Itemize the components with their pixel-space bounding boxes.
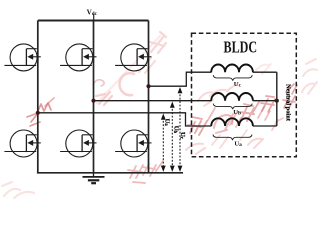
wire: phase leg A vertical [37,21,39,173]
wire: negative DC bus rail [37,172,183,174]
svg-text:Ua: Ua [163,119,170,127]
svg-text:Vdc: Vdc [87,9,98,18]
ground [83,173,105,183]
svg-text:Ua: Ua [234,140,242,148]
wire: phase leg C vertical [148,21,150,173]
node: phase B junction [91,99,95,103]
inductor winding A (bottom) [211,118,253,126]
svg-text:BLDC: BLDC [224,37,258,56]
wire coil A to neutral [253,125,277,127]
wire: phase B output to motor [94,100,212,102]
transistor VT4 (lower leg B) [60,130,96,157]
svg-text:Ub: Ub [233,109,241,117]
wire: neutral connection vertical [276,72,278,126]
transistor VT5 (upper leg C) [115,44,151,71]
node: phase C junction [146,84,150,88]
svg-text:Neutral point: Neutral point [284,84,291,122]
wire coil B to neutral [253,100,277,102]
wire: phase C output to motor [149,72,212,86]
wire: phase A output to motor [38,113,212,126]
brace under winding C [213,75,252,81]
inductor winding C (top) [211,65,253,73]
arrow: phase voltage Ub [170,102,175,172]
BLDC motor dashed enclosure [192,33,297,157]
arrow: phase voltage Ua [161,114,166,172]
brace under winding B [213,104,252,110]
inductor winding B (middle) [211,93,253,101]
wire coil C to neutral [253,71,277,73]
svg-text:Ub: Ub [172,126,179,134]
svg-text:Uc: Uc [179,132,186,139]
wire: positive DC bus rail [38,20,149,22]
node: neutral point [275,99,279,103]
svg-text:Uc: Uc [234,81,242,89]
transistor VT2 (lower leg A) [4,130,40,157]
arrow: phase voltage Uc [178,87,183,172]
transistor VT6 (lower leg C) [115,130,151,157]
wire: phase leg B vertical [93,21,95,173]
node: phase A junction [36,111,40,115]
transistor VT1 (upper leg A) [4,44,40,71]
brace under winding A [213,135,252,141]
transistor VT3 (upper leg B) [60,44,96,71]
node Vdc tick [93,14,95,21]
